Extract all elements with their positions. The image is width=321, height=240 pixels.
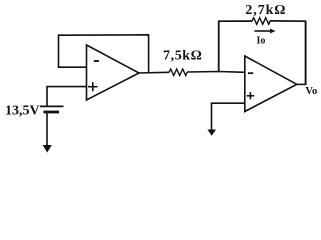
resistor R2 — [252, 18, 270, 25]
current Io arrow — [255, 29, 276, 34]
wire U2 non-inverting input — [212, 103, 245, 130]
battery V1 plate + — [40, 105, 64, 107]
svg-text:2,7kΩ: 2,7kΩ — [245, 3, 286, 18]
wire feedback top right segment — [270, 20, 306, 22]
wire R1 to U2 inverting input — [187, 71, 245, 74]
ground (below battery) — [43, 145, 52, 153]
U1 non-inverting input label + — [88, 82, 98, 91]
op-amp U2 — [245, 56, 297, 112]
svg-text:13,5V: 13,5V — [5, 104, 40, 119]
op-amp U1 — [87, 45, 140, 100]
battery V1 plate - — [44, 111, 60, 114]
wire U1 output to resistor R1 — [137, 71, 169, 74]
wire U2 output — [297, 83, 307, 85]
U1 inverting input label - — [94, 60, 99, 62]
svg-text:Vo: Vo — [305, 86, 317, 97]
svg-text:Io: Io — [257, 35, 266, 46]
wire junction up to feedback loop U2 — [218, 21, 220, 72]
U2 inverting input label - — [248, 72, 253, 74]
wire U1 non-inverting input — [47, 87, 87, 107]
wire feedback down to output — [305, 21, 307, 84]
wire feedback loop U1 (output to inverting input) — [59, 35, 149, 73]
svg-text:7,5kΩ: 7,5kΩ — [163, 49, 203, 64]
wire feedback top left segment — [218, 20, 252, 22]
wire U1 inverting input — [58, 66, 87, 68]
ground (U2 non-inverting input) — [207, 130, 216, 136]
wire battery to ground — [46, 112, 48, 146]
U2 non-inverting input label + — [247, 92, 255, 99]
resistor R1 — [169, 69, 187, 76]
